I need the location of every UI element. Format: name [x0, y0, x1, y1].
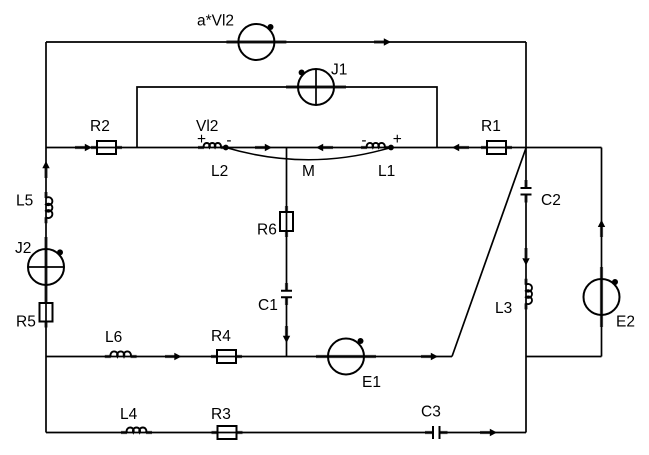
source E2 — [584, 279, 620, 315]
arrow after E1 right — [431, 353, 438, 360]
capacitor C2 — [521, 188, 532, 195]
svg-text:R3: R3 — [211, 406, 231, 423]
svg-text:R2: R2 — [90, 118, 110, 135]
inductor L2 — [204, 143, 221, 148]
dot L2 — [223, 145, 229, 151]
arrow before R1 left — [452, 144, 459, 151]
component lead pads (gray) — [46, 42, 602, 433]
svg-text:E2: E2 — [616, 314, 635, 331]
arrow left vertical up — [42, 161, 49, 168]
wire bottom y432 — [46, 432, 526, 434]
svg-text:L3: L3 — [495, 300, 512, 317]
wire middle vertical x286 — [286, 148, 288, 357]
arrow before mid left — [316, 144, 323, 151]
svg-text:R6: R6 — [257, 222, 277, 239]
arrow after L2 right — [265, 144, 272, 151]
inductor L6 — [111, 351, 131, 356]
wire diagonal — [452, 148, 526, 357]
svg-text:+: + — [393, 131, 402, 148]
inductor L5 — [46, 197, 52, 218]
svg-text:L6: L6 — [105, 329, 122, 346]
inductor L3 — [526, 284, 532, 304]
svg-text:C3: C3 — [421, 404, 441, 421]
resistor R6 — [280, 212, 293, 231]
source a*Vl2 — [238, 24, 274, 60]
svg-text:L5: L5 — [16, 193, 33, 210]
capacitor C3 — [433, 426, 440, 439]
wire left vertical — [45, 42, 47, 433]
source J1 — [298, 69, 334, 105]
source E1 — [328, 338, 364, 375]
wire middle horizontal y356 — [46, 356, 452, 358]
arrow after L6 right — [174, 353, 181, 360]
wire J1 loop — [137, 87, 437, 148]
resistor R5 — [40, 303, 53, 322]
capacitor C1 — [281, 291, 292, 297]
svg-text:L2: L2 — [211, 163, 228, 180]
arrow above L3 down — [522, 258, 529, 265]
inductor L1 — [367, 143, 385, 148]
svg-text:L1: L1 — [378, 163, 395, 180]
wire E2 bottom y356 — [526, 356, 602, 358]
wire E2 vertical x601 — [601, 148, 603, 357]
svg-text:+: + — [197, 131, 206, 148]
resistor R2 — [97, 141, 116, 154]
source J2 — [28, 249, 64, 285]
svg-text:R1: R1 — [481, 118, 501, 135]
svg-text:M: M — [302, 163, 315, 180]
svg-text:R5: R5 — [16, 314, 36, 331]
arrow below C1 down — [283, 336, 290, 343]
wire main horizontal y147 — [46, 147, 602, 149]
svg-text:C1: C1 — [258, 297, 278, 314]
arrow E2 branch up — [598, 220, 605, 227]
inductor L4 — [127, 428, 147, 433]
svg-text:J2: J2 — [15, 240, 31, 257]
arrow before R2 right — [85, 144, 92, 151]
resistor R3 — [218, 426, 237, 439]
resistor R4 — [217, 350, 236, 363]
wire right vertical x526 — [525, 42, 527, 433]
arrow after C3 right — [490, 429, 497, 436]
arrow top wire right — [384, 38, 391, 45]
svg-text:a*Vl2: a*Vl2 — [197, 13, 234, 30]
svg-text:J1: J1 — [331, 62, 347, 79]
dot L1 — [388, 145, 394, 151]
coupling arc M — [226, 148, 391, 160]
svg-text:R4: R4 — [211, 328, 231, 345]
svg-text:L4: L4 — [120, 406, 138, 423]
resistor R1 — [487, 141, 506, 154]
svg-text:E1: E1 — [362, 374, 381, 391]
svg-text:C2: C2 — [541, 192, 561, 209]
wire top — [46, 41, 526, 43]
